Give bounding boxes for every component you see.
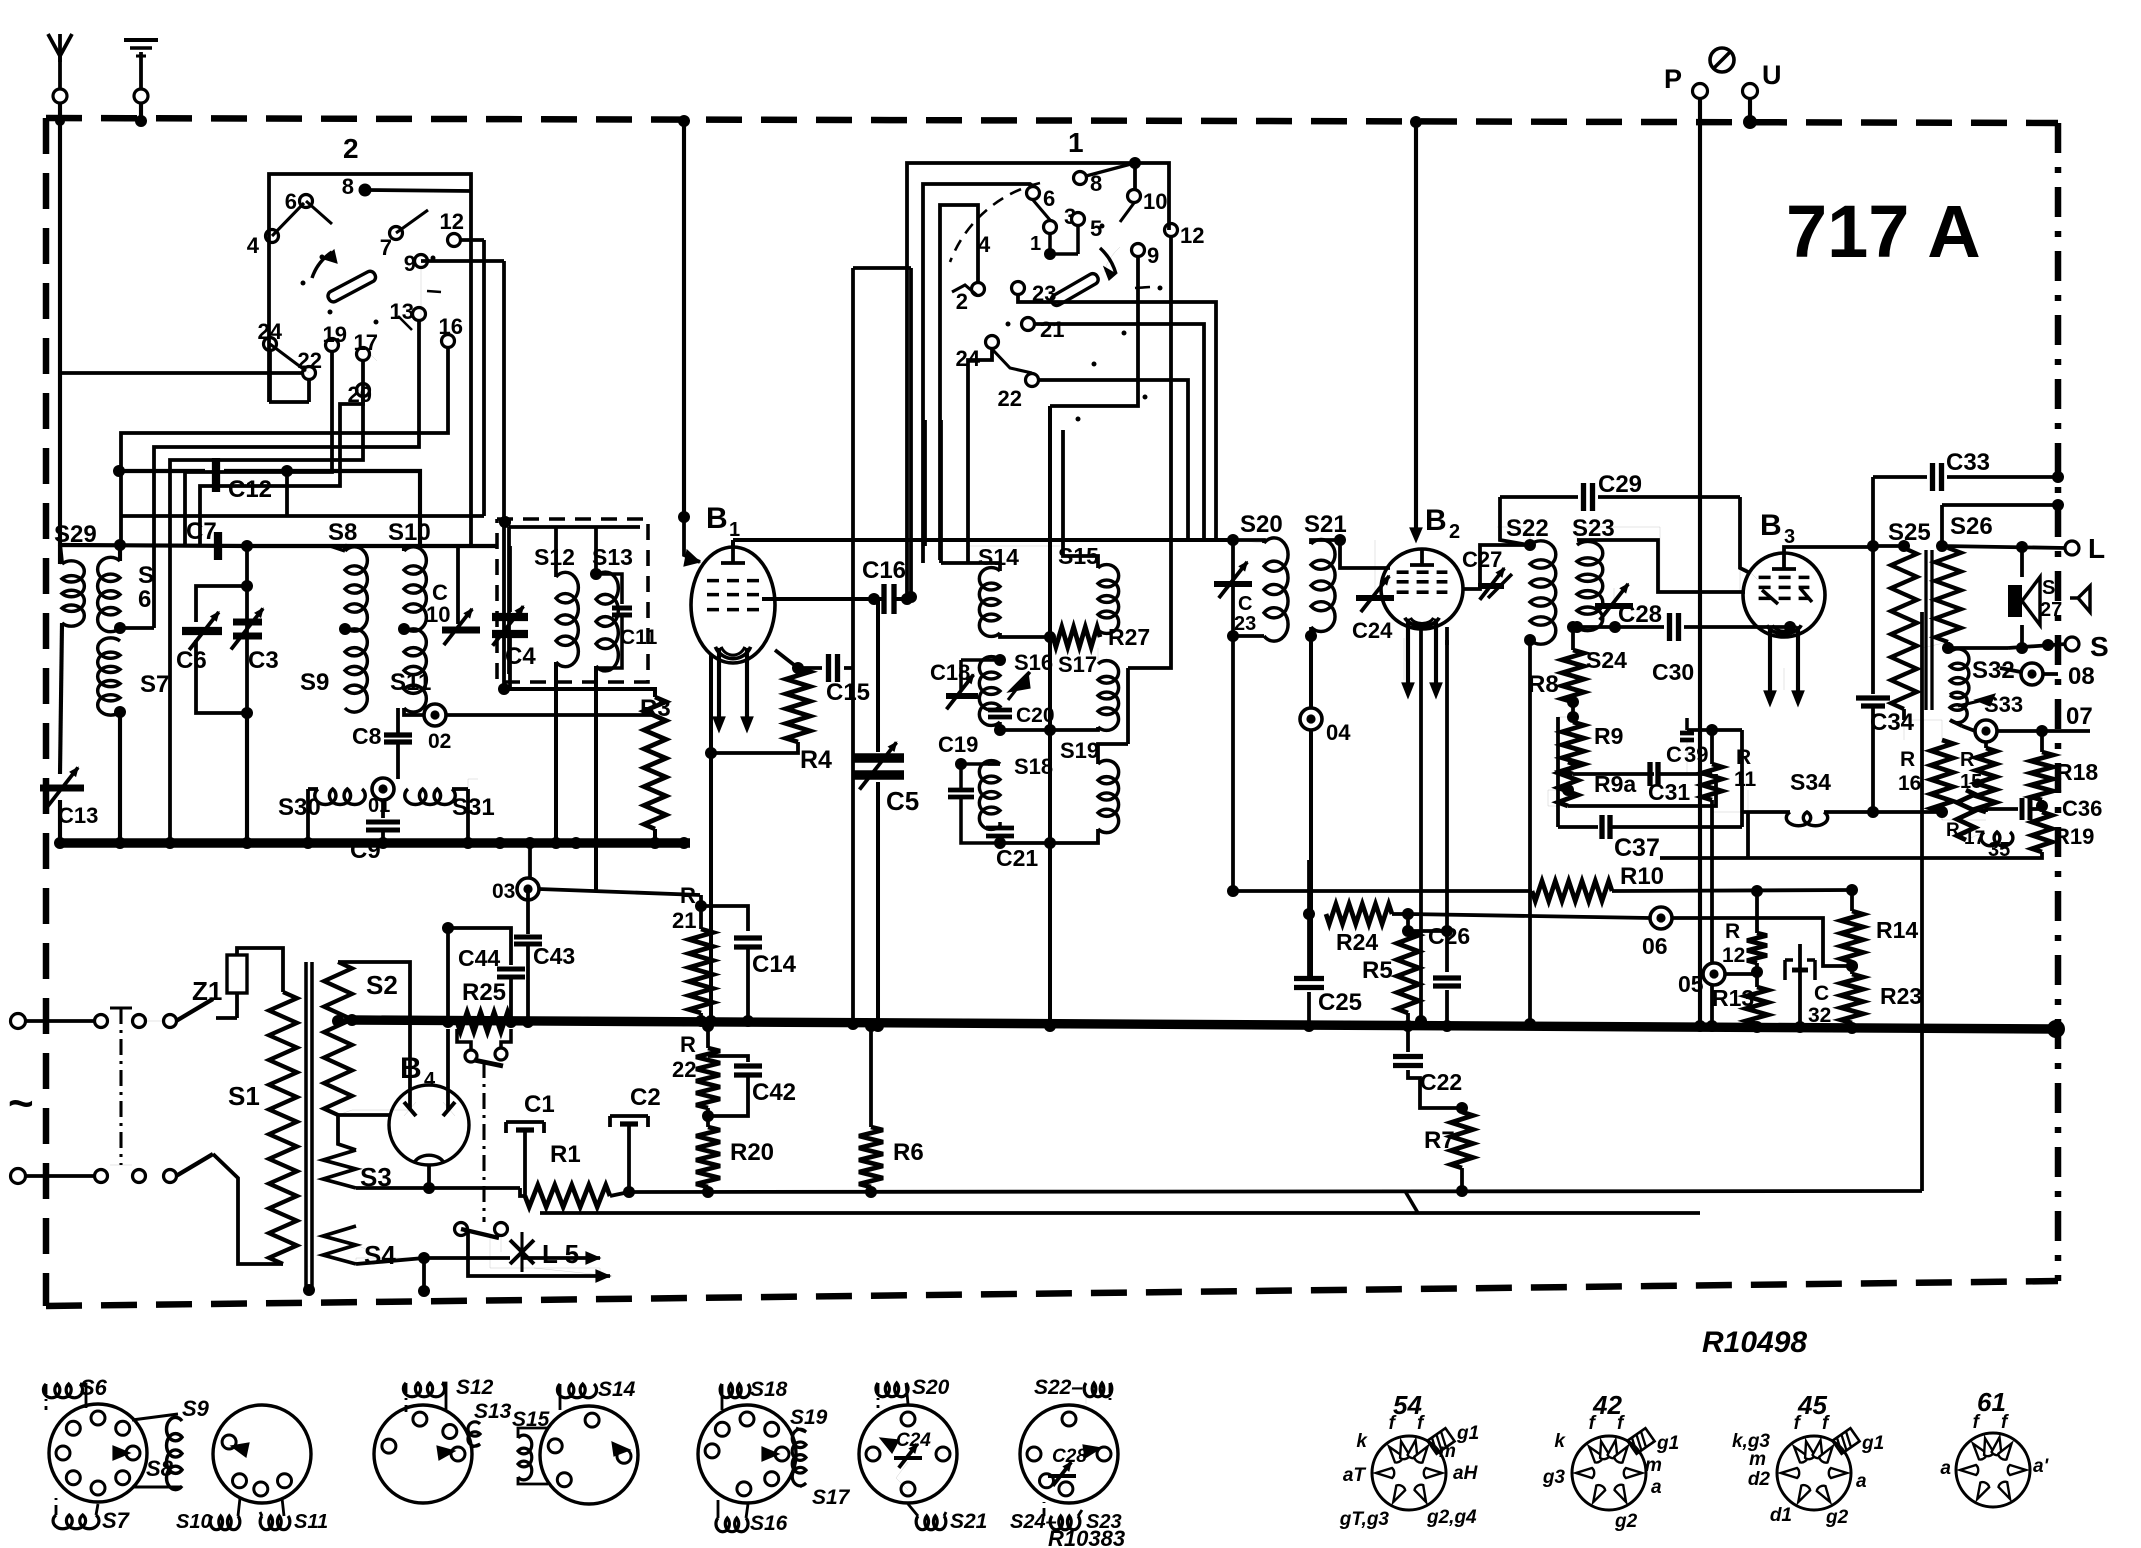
terminal P — [1664, 64, 1708, 99]
wire: S12 bottom — [550, 662, 562, 849]
mains switch linkage — [110, 1008, 132, 1165]
svg-text:S4: S4 — [364, 1240, 396, 1270]
svg-text:S: S — [138, 562, 154, 589]
cap C29 — [1500, 471, 1748, 572]
coil S10 — [388, 519, 431, 631]
pinout 45 — [1732, 1390, 1884, 1528]
coil S20 — [1227, 511, 1288, 642]
svg-text:S2: S2 — [366, 970, 398, 1000]
resistor R9a — [1558, 762, 1636, 806]
wire: switch2 right drops — [121, 240, 511, 695]
svg-text:C37: C37 — [1614, 834, 1660, 862]
svg-text:a: a — [1856, 1471, 1867, 1492]
cap C16 — [862, 557, 917, 614]
svg-text:S22–: S22– — [1034, 1376, 1083, 1399]
cap C14 — [701, 906, 797, 1027]
wire: S31 right drop — [462, 779, 478, 849]
coil S23 — [1571, 515, 1615, 633]
svg-text:S: S — [2042, 577, 2055, 599]
svg-text:R7: R7 — [1424, 1127, 1455, 1154]
wire: L terminal line — [1942, 533, 2105, 564]
svg-text:S11: S11 — [294, 1511, 328, 1533]
resistor R18 — [2031, 725, 2098, 800]
svg-text:g1: g1 — [1656, 1433, 1679, 1454]
svg-text:C28: C28 — [1618, 601, 1662, 628]
tube socket B3 (S20/S21/C24) — [859, 1376, 987, 1533]
svg-text:B: B — [1425, 504, 1447, 537]
ground terminal — [124, 40, 158, 103]
trimmer C24 — [1352, 540, 1394, 643]
svg-text:8: 8 — [342, 174, 354, 199]
wire: B2 cathode drop — [1445, 627, 1449, 645]
svg-text:S1: S1 — [228, 1081, 260, 1111]
transformer primary S1 — [228, 992, 297, 1264]
svg-text:R25: R25 — [462, 979, 506, 1006]
svg-text:C11: C11 — [620, 626, 658, 649]
svg-text:R: R — [1725, 920, 1740, 943]
svg-text:S20: S20 — [912, 1376, 950, 1399]
coil S22 — [1506, 515, 1556, 644]
wire: switch1 left bundle — [847, 268, 925, 1030]
cap C32 — [1785, 944, 1831, 1033]
wire: S16/S17 bottoms — [1000, 724, 1098, 736]
svg-text:R20: R20 — [730, 1139, 774, 1166]
trimmer C5 — [852, 601, 919, 1032]
resistor R16 — [1898, 709, 1953, 820]
coil S14 — [941, 544, 1019, 636]
svg-text:R18: R18 — [2056, 759, 2098, 785]
wire: S23 to B3 grid — [1577, 527, 1746, 592]
svg-text:12: 12 — [440, 209, 464, 234]
wire: S26 primary top link — [1936, 499, 2064, 552]
svg-text:S24: S24 — [1586, 647, 1627, 673]
wire: R9a loop — [1548, 774, 1716, 806]
pinout 54 — [1339, 1390, 1479, 1530]
fuse Z1 — [192, 948, 283, 1018]
svg-text:L 5: L 5 — [542, 1239, 579, 1269]
resistor R20 — [696, 1127, 774, 1198]
tube B1 — [691, 502, 775, 732]
meter jack — [1710, 48, 1734, 72]
svg-text:22: 22 — [672, 1057, 696, 1082]
svg-text:S26: S26 — [1950, 513, 1993, 540]
transformer core — [303, 962, 315, 1296]
svg-text:S31: S31 — [452, 794, 495, 821]
resistor R3 — [504, 689, 671, 849]
svg-text:R3: R3 — [640, 695, 671, 722]
cap C44 — [442, 922, 525, 1022]
svg-text:C2: C2 — [630, 1084, 661, 1111]
terminal 07 — [1962, 703, 2093, 742]
cap C2 — [610, 1084, 661, 1198]
svg-text:S17: S17 — [812, 1486, 851, 1509]
wire: S22 top to C29 — [1500, 497, 1528, 545]
coil S16 — [979, 650, 1053, 725]
terminal U — [1743, 60, 1782, 99]
svg-text:gT,g3: gT,g3 — [1339, 1509, 1390, 1530]
wire: ground lead — [135, 103, 147, 127]
coil S31 — [405, 789, 495, 821]
wire: lower return second — [540, 1191, 1700, 1213]
terminal 06 — [1408, 907, 1858, 972]
svg-text:C5: C5 — [886, 786, 919, 816]
resistor R23 — [1841, 974, 1922, 1034]
wire: IF inner box — [499, 516, 640, 674]
tube B3 — [1743, 509, 1825, 706]
svg-text:R8: R8 — [1528, 671, 1559, 698]
cap C11 — [596, 574, 658, 668]
coil S11 — [390, 623, 431, 712]
svg-text:S6: S6 — [80, 1375, 108, 1400]
svg-text:C6: C6 — [176, 647, 207, 674]
trimmer C18 — [930, 654, 1006, 709]
svg-text:S12: S12 — [456, 1376, 494, 1399]
tube socket B1 (S6..S9) — [43, 1375, 209, 1533]
svg-text:C: C — [1238, 593, 1252, 615]
wire: S18/S19 bottom — [1000, 829, 1098, 849]
coil S17 — [1058, 648, 1119, 730]
svg-text:S7: S7 — [102, 1508, 131, 1533]
resistor R22 — [672, 1020, 720, 1127]
svg-text:21: 21 — [672, 908, 696, 933]
trimmer C10 — [426, 580, 480, 645]
rotary switch 2 — [247, 133, 464, 407]
cap C26 — [1408, 640, 1470, 1032]
wire: antenna into switch area — [60, 371, 304, 375]
svg-text:2: 2 — [343, 133, 359, 164]
svg-text:R: R — [1960, 749, 1975, 771]
svg-text:C12: C12 — [228, 476, 272, 503]
wire: lower return line — [629, 1191, 1922, 1192]
wire: S14 top box — [939, 420, 943, 563]
wire: S3 lead — [356, 1182, 525, 1196]
trimmer C6 — [176, 586, 247, 713]
cap C34 — [1856, 546, 1915, 812]
cap C31 — [1573, 762, 1712, 805]
wire: switch1 nested tops — [901, 157, 1169, 605]
wire: U lead — [1743, 98, 1757, 129]
resistor R21 — [672, 883, 713, 1027]
cap C33 — [1873, 449, 2064, 491]
cap C43 — [514, 889, 575, 1028]
svg-text:R23: R23 — [1880, 983, 1922, 1009]
svg-text:C16: C16 — [862, 557, 906, 584]
output transformer core — [1926, 550, 1932, 710]
svg-text:R9: R9 — [1594, 723, 1623, 749]
output transformer secondary S26 — [1935, 513, 2022, 648]
coil S8 — [328, 519, 367, 631]
cap C36 — [1986, 796, 2102, 821]
svg-text:aH: aH — [1453, 1463, 1479, 1484]
wire: lamp second lead — [468, 1232, 610, 1282]
cap C42 — [708, 1056, 796, 1116]
svg-text:C36: C36 — [2062, 796, 2102, 821]
resistor R9 — [1562, 702, 1623, 774]
svg-text:C8: C8 — [352, 723, 382, 749]
label 717 A — [1786, 190, 1981, 273]
svg-text:C: C — [1666, 742, 1682, 767]
coil S7 — [98, 638, 170, 715]
label R10383 — [1048, 1526, 1125, 1548]
svg-text:S13: S13 — [592, 544, 633, 570]
resistor R7 — [1424, 1108, 1473, 1197]
cap C20 — [988, 704, 1055, 736]
wire: S10 top lead — [345, 546, 497, 551]
coil S29 — [54, 521, 97, 626]
svg-text:06: 06 — [1642, 933, 1668, 959]
svg-text:S10: S10 — [388, 519, 431, 546]
svg-text:S8: S8 — [146, 1456, 174, 1481]
cap C15 — [798, 654, 870, 706]
svg-text:a: a — [1651, 1477, 1662, 1498]
heater winding S4 — [323, 1226, 510, 1297]
svg-text:aT: aT — [1343, 1465, 1367, 1486]
svg-text:9: 9 — [404, 251, 416, 276]
svg-text:39: 39 — [1684, 742, 1708, 767]
cap C4 — [492, 606, 536, 689]
svg-text:k: k — [1554, 1431, 1566, 1452]
svg-text:S18: S18 — [1014, 754, 1053, 779]
wire: B1 grid feed — [678, 115, 700, 566]
wire: B1 top cap lead — [733, 534, 1239, 547]
svg-text:5: 5 — [1090, 216, 1102, 241]
coil S33 — [1950, 692, 2023, 726]
wire: left bus risers — [494, 837, 690, 878]
svg-text:16: 16 — [439, 314, 463, 339]
svg-text:S19: S19 — [790, 1406, 828, 1429]
svg-text:R14: R14 — [1876, 917, 1918, 943]
rectifier B4 — [338, 1052, 469, 1165]
svg-text:C29: C29 — [1598, 471, 1642, 498]
dial lamp L5 — [490, 1232, 612, 1276]
pinout 61 — [1940, 1387, 2049, 1507]
cap C25 — [1294, 979, 1362, 1033]
svg-text:g2: g2 — [1825, 1507, 1849, 1528]
svg-text:S16: S16 — [750, 1512, 788, 1535]
svg-text:2: 2 — [1449, 521, 1460, 543]
svg-text:15: 15 — [1960, 771, 1982, 793]
resistor R5 — [1362, 914, 1419, 1032]
svg-text:C9: C9 — [350, 837, 381, 864]
svg-text:C30: C30 — [1652, 659, 1694, 685]
wire: C23 drop — [1227, 636, 1239, 897]
wire: S6/S7 junction — [114, 622, 154, 849]
svg-text:R10: R10 — [1620, 863, 1664, 890]
svg-text:S7: S7 — [140, 671, 169, 698]
trimmer C23 — [1214, 540, 1256, 636]
lamp switch — [455, 1223, 508, 1253]
wire: S21 to B2 grid — [1334, 534, 1390, 568]
mains switch lower pole — [95, 1154, 214, 1183]
wire: top dashed chassis border — [46, 118, 2058, 123]
svg-text:S25: S25 — [1888, 519, 1931, 546]
wire: switch2 top box — [269, 174, 484, 545]
svg-text:6: 6 — [1043, 186, 1055, 211]
svg-text:C31: C31 — [1648, 779, 1690, 805]
coil S30 — [278, 789, 365, 821]
svg-text:C3: C3 — [248, 647, 279, 674]
svg-text:g2: g2 — [1614, 1511, 1638, 1532]
terminal 04 — [1300, 636, 1351, 978]
svg-text:k: k — [1356, 1431, 1368, 1452]
svg-text:1: 1 — [1068, 127, 1084, 158]
cap C39 — [1666, 718, 1708, 774]
svg-text:g1: g1 — [1456, 1423, 1479, 1444]
wire: B3 top cap to C33 — [1784, 477, 1879, 553]
cap C30 — [1577, 613, 1796, 685]
svg-text:S: S — [2090, 631, 2109, 662]
wire: S29 top feed — [60, 539, 253, 552]
resistor R12 — [1722, 885, 1767, 967]
resistor R4 — [705, 650, 832, 774]
svg-text:R: R — [1946, 820, 1960, 841]
wire: speaker return — [1922, 612, 1948, 1191]
svg-text:2: 2 — [956, 289, 968, 314]
svg-text:S34: S34 — [1790, 769, 1831, 795]
resistor R14 — [1841, 884, 1918, 974]
svg-text:C15: C15 — [826, 679, 870, 706]
terminal 03 — [492, 843, 700, 903]
speaker icon — [2070, 586, 2090, 612]
svg-text:4: 4 — [978, 232, 991, 257]
svg-text:S21: S21 — [1304, 511, 1347, 538]
speaker S27 — [2008, 547, 2062, 654]
wire: S terminal line — [2008, 631, 2109, 662]
svg-text:6: 6 — [138, 586, 151, 613]
tube socket output (S22..C28) — [1010, 1376, 1122, 1533]
svg-text:U: U — [1762, 60, 1782, 90]
svg-text:1: 1 — [729, 519, 740, 541]
wire: IF centre column — [1044, 406, 1056, 1032]
wire: B1 cathode down — [705, 655, 717, 1027]
svg-text:C18: C18 — [930, 660, 970, 685]
trimmer C3 — [231, 546, 279, 849]
svg-text:P: P — [1664, 64, 1682, 94]
svg-text:717 A: 717 A — [1786, 190, 1981, 273]
coil S32 — [1942, 642, 2015, 698]
wire: antenna lead — [55, 103, 65, 564]
wire: B1 anode line — [762, 593, 880, 605]
mains terminals — [11, 1014, 95, 1184]
svg-text:32: 32 — [1808, 1004, 1831, 1027]
resistor R1 — [525, 1141, 629, 1207]
svg-text:C42: C42 — [752, 1079, 796, 1106]
svg-text:C22: C22 — [1420, 1069, 1462, 1095]
svg-text:21: 21 — [1040, 317, 1064, 342]
terminal 05 — [1678, 963, 1763, 997]
svg-text:R10498: R10498 — [1702, 1326, 1807, 1359]
svg-text:C14: C14 — [752, 951, 797, 978]
resistor R8 — [1528, 621, 1627, 708]
svg-text:S18: S18 — [750, 1378, 788, 1401]
cap C12 — [113, 458, 293, 503]
svg-text:S19: S19 — [1060, 738, 1099, 763]
wire: R11 to S34 line — [1712, 811, 1748, 813]
terminal 08 — [1990, 663, 2095, 690]
svg-text:12: 12 — [1180, 223, 1204, 248]
svg-text:S21: S21 — [950, 1510, 987, 1533]
cap C9 — [350, 800, 400, 864]
wire: P lead down — [1694, 98, 1706, 1032]
svg-text:16: 16 — [1898, 772, 1921, 795]
svg-text:C: C — [1814, 982, 1829, 1005]
wire: S13 bottom — [594, 666, 598, 891]
resistor R11 — [1702, 730, 1757, 1032]
svg-text:a': a' — [2033, 1456, 2050, 1477]
svg-text:Z1: Z1 — [192, 976, 222, 1006]
svg-text:1: 1 — [1030, 233, 1041, 255]
wire: switch1 long outputs — [968, 237, 1216, 668]
svg-text:23: 23 — [1234, 613, 1256, 635]
cap C7 — [186, 518, 218, 560]
resistor R24 — [1303, 860, 1414, 978]
wire: bottom dashed chassis border — [46, 1281, 2058, 1306]
svg-text:10: 10 — [426, 602, 450, 627]
svg-text:C13: C13 — [58, 803, 98, 828]
resistor R27 — [1000, 624, 1150, 650]
wire: B2 anode feed — [1410, 116, 1422, 542]
heater winding S3 — [323, 1115, 392, 1192]
voltage selector — [457, 1029, 511, 1066]
svg-text:B: B — [706, 502, 728, 535]
svg-text:R5: R5 — [1362, 957, 1393, 984]
output transformer S25 — [1873, 519, 1931, 720]
trimmer C28 — [1595, 584, 1662, 628]
svg-text:C1: C1 — [524, 1091, 555, 1118]
cap C22 — [1393, 1026, 1468, 1114]
svg-text:g3: g3 — [1542, 1467, 1566, 1488]
svg-text:S9: S9 — [300, 669, 329, 696]
wire: S11 tap to 02 — [404, 708, 655, 715]
svg-text:05: 05 — [1678, 971, 1704, 997]
svg-text:S16: S16 — [1014, 650, 1053, 675]
svg-text:g1: g1 — [1861, 1433, 1884, 1454]
svg-text:C44: C44 — [458, 945, 500, 971]
wire: B3 cathode bottom — [1783, 668, 1785, 690]
svg-text:11: 11 — [1734, 768, 1757, 791]
svg-text:d2: d2 — [1748, 1469, 1771, 1490]
resistor R19 — [1660, 800, 2094, 858]
svg-text:S17: S17 — [1058, 652, 1097, 677]
rotary switch 1 — [950, 127, 1204, 422]
wire: S23 column — [1524, 634, 1536, 1030]
svg-text:R19: R19 — [2054, 824, 2094, 849]
cap C1 — [506, 1091, 555, 1196]
resistor R10 — [1233, 863, 1852, 901]
svg-text:C24: C24 — [1352, 618, 1393, 643]
wire: S8 top lead — [247, 546, 345, 551]
svg-text:07: 07 — [2066, 703, 2093, 730]
coil S34 — [1742, 769, 1948, 826]
coil S6 — [98, 545, 154, 632]
antenna terminal — [48, 34, 72, 103]
terminal 02 — [424, 704, 451, 753]
cap C8 — [352, 708, 412, 779]
coil S18 — [979, 754, 1053, 829]
tube socket B4 (S10/S11) — [176, 1405, 328, 1533]
cap C37 — [1558, 717, 1742, 862]
tube socket B? (S12/S13) — [374, 1376, 512, 1503]
svg-text:R10383: R10383 — [1048, 1526, 1125, 1548]
svg-text:R: R — [680, 883, 696, 908]
svg-text:C21: C21 — [996, 845, 1038, 871]
svg-text:L: L — [2088, 533, 2105, 564]
svg-text:S22: S22 — [1506, 515, 1549, 542]
tube socket B2 (S16..S19) — [698, 1378, 851, 1535]
coil S13 — [590, 527, 633, 671]
trimmer C27 — [1462, 547, 1512, 600]
wire: lower pole to S1 bottom — [213, 1154, 283, 1264]
